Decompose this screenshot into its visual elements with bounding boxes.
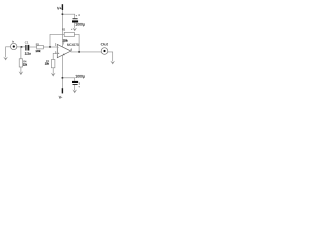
svg-text:2.2u: 2.2u	[25, 51, 31, 55]
svg-text:C1: C1	[25, 41, 29, 45]
svg-text:1000µ: 1000µ	[75, 75, 85, 79]
svg-text:22k: 22k	[23, 62, 27, 66]
svg-text:-: -	[58, 45, 59, 49]
svg-text:V+: V+	[57, 6, 62, 10]
svg-text:MC4575: MC4575	[67, 43, 79, 47]
svg-text:10k: 10k	[35, 49, 40, 53]
svg-text:1000µ: 1000µ	[75, 22, 85, 26]
svg-text:Out: Out	[101, 42, 109, 46]
svg-text:10k: 10k	[45, 62, 50, 66]
